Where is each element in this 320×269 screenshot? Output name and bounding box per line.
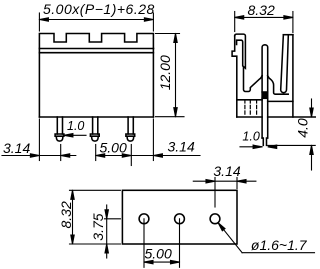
svg-text:4.0: 4.0	[295, 118, 311, 138]
svg-text:3.14: 3.14	[213, 163, 240, 179]
svg-text:ø1.6~1.7: ø1.6~1.7	[251, 237, 308, 253]
svg-text:12.00: 12.00	[157, 55, 173, 90]
svg-text:5.00: 5.00	[100, 140, 127, 156]
svg-text:1.0: 1.0	[242, 130, 259, 144]
svg-text:5.00: 5.00	[145, 246, 172, 262]
svg-text:3.75: 3.75	[90, 213, 106, 240]
svg-text:3.14: 3.14	[3, 140, 30, 156]
svg-text:8.32: 8.32	[248, 2, 275, 18]
svg-text:5.00x(P−1)+6.28: 5.00x(P−1)+6.28	[43, 1, 155, 17]
svg-text:1.0: 1.0	[67, 119, 84, 133]
svg-text:3.14: 3.14	[168, 139, 195, 155]
svg-text:8.32: 8.32	[58, 201, 74, 228]
